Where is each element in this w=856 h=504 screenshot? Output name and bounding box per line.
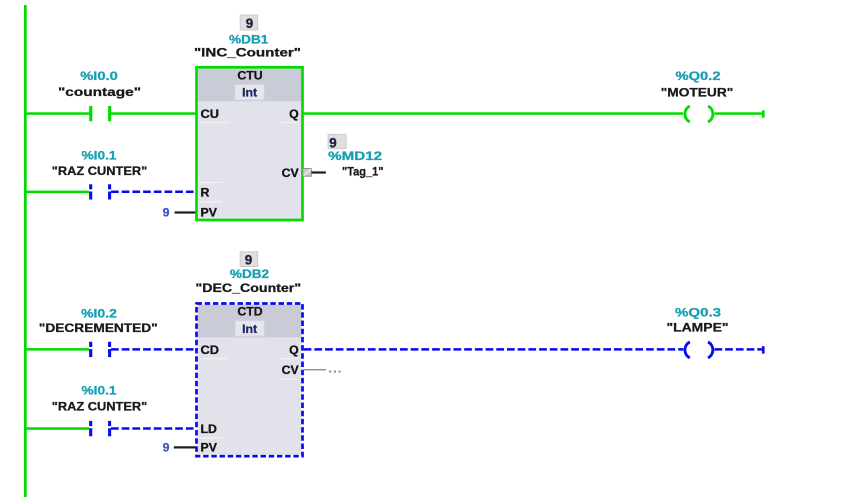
- svg-text:%I0.2: %I0.2: [81, 307, 117, 321]
- svg-text:%I0.0: %I0.0: [80, 69, 118, 83]
- svg-text:CTU: CTU: [237, 69, 262, 83]
- svg-text:"Tag_1": "Tag_1": [342, 165, 384, 179]
- svg-text:"DECREMENTED": "DECREMENTED": [39, 321, 158, 335]
- svg-text:"DEC_Counter": "DEC_Counter": [196, 281, 302, 295]
- svg-text:"countage": "countage": [58, 85, 141, 99]
- svg-text:%Q0.2: %Q0.2: [676, 69, 721, 83]
- svg-text:%DB2: %DB2: [230, 267, 269, 281]
- svg-text:...: ...: [329, 361, 343, 375]
- svg-text:9: 9: [163, 205, 170, 219]
- svg-text:"RAZ CUNTER": "RAZ CUNTER": [52, 164, 148, 178]
- svg-text:9: 9: [329, 135, 336, 150]
- svg-text:%I0.1: %I0.1: [82, 148, 117, 162]
- svg-text:%MD12: %MD12: [328, 149, 382, 163]
- svg-text:9: 9: [246, 16, 253, 31]
- svg-text:R: R: [201, 185, 210, 199]
- svg-text:PV: PV: [201, 441, 218, 455]
- svg-text:%Q0.3: %Q0.3: [675, 306, 721, 320]
- svg-text:CV: CV: [282, 166, 300, 180]
- svg-text:CD: CD: [201, 343, 220, 357]
- svg-text:%I0.1: %I0.1: [82, 384, 117, 398]
- svg-text:CU: CU: [201, 107, 220, 121]
- svg-text:"INC_Counter": "INC_Counter": [194, 46, 301, 60]
- svg-text:LD: LD: [201, 422, 218, 436]
- svg-text:%DB1: %DB1: [229, 33, 268, 47]
- svg-text:9: 9: [163, 441, 170, 455]
- svg-text:Int: Int: [242, 322, 257, 336]
- svg-text:Int: Int: [242, 86, 257, 100]
- svg-text:Q: Q: [289, 343, 299, 357]
- svg-text:"MOTEUR": "MOTEUR": [661, 85, 734, 99]
- svg-text:CV: CV: [282, 363, 300, 377]
- svg-text:Q: Q: [289, 107, 299, 121]
- svg-text:PV: PV: [201, 205, 218, 219]
- svg-text:"LAMPE": "LAMPE": [667, 321, 729, 335]
- svg-text:"RAZ CUNTER": "RAZ CUNTER": [52, 400, 148, 414]
- svg-text:CTD: CTD: [237, 305, 262, 319]
- svg-text:9: 9: [245, 253, 252, 268]
